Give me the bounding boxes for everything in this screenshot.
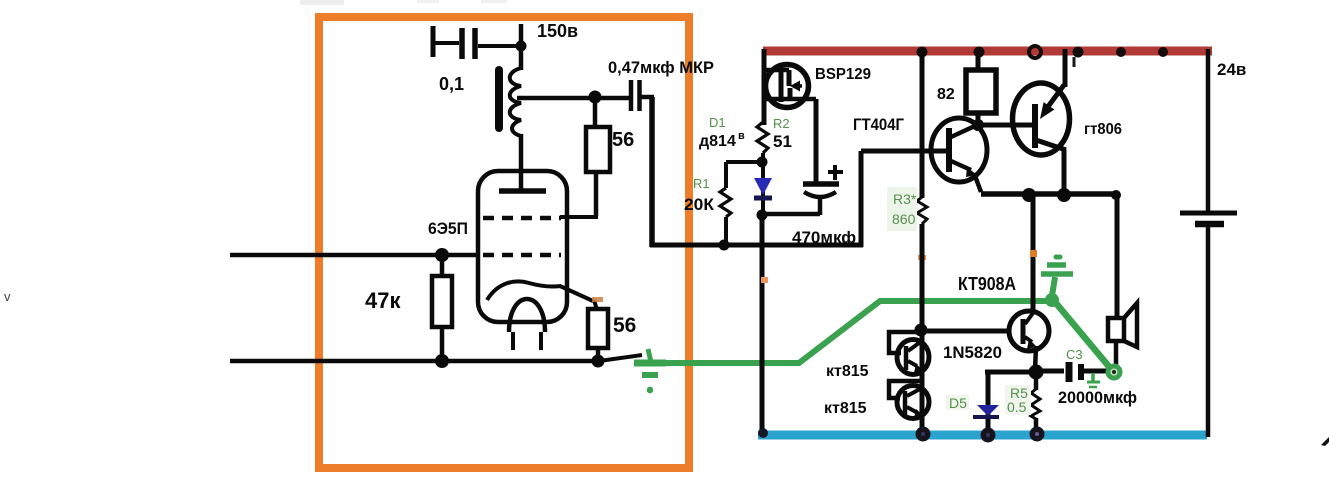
svg-text:R3*: R3* xyxy=(893,191,917,207)
resistor 82 xyxy=(966,51,996,126)
label 6E5P xyxy=(428,219,468,238)
value 0.5 xyxy=(1007,399,1027,415)
svg-text:1N5820: 1N5820 xyxy=(943,343,1002,362)
wire ground drop x762 xyxy=(760,215,765,433)
value 51 xyxy=(773,132,792,151)
capacitor 0,1 xyxy=(433,26,521,59)
ground earth green xyxy=(634,349,666,393)
value 20000uF xyxy=(1058,388,1137,407)
svg-text:20000мкф: 20000мкф xyxy=(1058,388,1137,407)
value 56 bottom xyxy=(613,314,636,337)
wire input bottom xyxy=(230,355,642,361)
artifact bottom right xyxy=(1321,437,1329,446)
tube anode plate xyxy=(499,188,546,194)
node blue rail left xyxy=(758,428,768,438)
svg-text:56: 56 xyxy=(612,129,634,151)
speaker LS1 xyxy=(1108,195,1137,367)
svg-text:D5: D5 xyxy=(949,395,967,411)
value 470uF xyxy=(792,228,856,247)
label BSP129 xyxy=(815,66,871,83)
value 47k xyxy=(365,288,401,313)
label gt806 xyxy=(1084,121,1122,138)
value 20K xyxy=(684,195,715,214)
rail 0V blue xyxy=(758,431,1207,440)
node blue rail kt815 xyxy=(916,427,931,442)
transistor Q1 BSP129 xyxy=(764,65,816,108)
label 150v xyxy=(537,21,578,41)
node collector junction xyxy=(972,119,984,131)
node tap junction xyxy=(589,91,602,104)
wire base gt806 xyxy=(978,123,1035,128)
label GT404G xyxy=(853,115,904,134)
svg-text:в: в xyxy=(738,130,745,142)
svg-text:D1: D1 xyxy=(709,115,726,130)
node blue rail r5 xyxy=(1030,427,1045,442)
wire source drop xyxy=(814,99,819,184)
resistor R5 0.5 xyxy=(1031,372,1040,432)
node input top junction xyxy=(435,248,449,262)
resistor R3 860 xyxy=(917,49,927,433)
node y192 left junction xyxy=(1022,188,1036,202)
artifact v gray xyxy=(4,289,11,304)
svg-text:0,1: 0,1 xyxy=(439,74,464,94)
node green junction xyxy=(1045,293,1059,307)
svg-text:20К: 20К xyxy=(684,195,715,214)
wire tap down xyxy=(593,98,598,127)
wire riser x861 xyxy=(859,151,864,247)
tube U1 6E5P envelope xyxy=(478,171,567,322)
svg-text:6Э5П: 6Э5П xyxy=(428,219,468,238)
capacitor C3 xyxy=(1034,362,1108,382)
faint scan artifact top xyxy=(300,0,507,5)
artifact orange smudge xyxy=(592,297,603,302)
svg-text:56: 56 xyxy=(613,314,636,337)
wire kt908 base xyxy=(921,329,1010,334)
svg-text:C3: C3 xyxy=(1066,347,1083,362)
wire screen grid xyxy=(560,172,598,217)
transistor Q4 KT908A xyxy=(1009,311,1049,371)
label 24v xyxy=(1217,60,1246,79)
tube heater xyxy=(509,299,545,350)
svg-text:КТ908А: КТ908А xyxy=(958,274,1016,294)
svg-text:BSP129: BSP129 xyxy=(815,66,871,83)
wire emitter bus y192 xyxy=(981,150,1118,194)
svg-text:470мкф: 470мкф xyxy=(792,228,856,247)
tube cathode xyxy=(487,281,561,300)
artifact orange mark x1033 xyxy=(1030,250,1037,257)
transistor Q2 GT404G xyxy=(931,118,987,192)
inductor L1 coil xyxy=(510,68,521,136)
label KT908A xyxy=(958,274,1016,294)
wire base feed y151 xyxy=(861,149,947,154)
node y245 junction xyxy=(719,240,730,251)
node y192 right junction xyxy=(1111,190,1121,200)
label R1 xyxy=(693,176,710,191)
label kt815 top xyxy=(826,363,869,380)
capacitor 0,47uF MKP xyxy=(631,80,654,111)
node green output ring xyxy=(1108,366,1120,378)
label 1N5820 xyxy=(943,343,1002,362)
resistor R1 xyxy=(720,162,763,245)
svg-text:24в: 24в xyxy=(1217,60,1246,79)
svg-text:R2: R2 xyxy=(773,116,790,131)
resistor 56 top xyxy=(586,127,610,172)
svg-text:д814: д814 xyxy=(699,133,736,150)
transistor Q6 kt815 bottom xyxy=(889,381,929,419)
wire kt908 collector xyxy=(1031,194,1036,313)
wire cathode lead xyxy=(560,286,597,310)
diode D1 zener d814 xyxy=(754,162,772,220)
node y192 mid junction xyxy=(1057,188,1071,202)
node 150v junction xyxy=(516,24,527,52)
transistor Q3 gt806 xyxy=(1013,83,1070,155)
value 0,47uF MKP xyxy=(608,58,714,77)
node R2 bottom junction xyxy=(757,157,768,168)
label kt815 bottom xyxy=(824,400,867,417)
label D1 xyxy=(709,115,726,130)
node base bus junction xyxy=(915,324,928,337)
wire coil to plate xyxy=(519,134,524,192)
ground mini green xyxy=(1087,373,1100,387)
transistor Q5 kt815 top xyxy=(889,332,929,375)
wire output bus y371 xyxy=(985,370,1036,375)
ground earth green right xyxy=(1041,257,1073,296)
wire coupling down xyxy=(649,97,655,247)
svg-text:860: 860 xyxy=(892,211,916,227)
value 56 top xyxy=(612,129,634,151)
value 0,1 xyxy=(439,74,464,94)
wire gt806 collector rail xyxy=(1065,49,1074,87)
resistor R2 xyxy=(757,122,768,163)
tube control grid dashed xyxy=(483,253,561,258)
label C3 xyxy=(1066,347,1083,362)
capacitor C 470uF xyxy=(762,165,843,215)
wire bus y245 xyxy=(650,243,863,248)
orange highlight box xyxy=(319,17,689,468)
diode D5 xyxy=(973,372,999,432)
svg-text:47к: 47к xyxy=(365,288,401,313)
label D5 xyxy=(946,395,969,411)
node blue rail d5 xyxy=(981,428,996,443)
svg-text:v: v xyxy=(4,289,11,304)
tube screen grid dashed xyxy=(483,216,561,221)
svg-text:R1: R1 xyxy=(693,176,710,191)
node input bottom junction xyxy=(435,354,449,368)
node emitter junction xyxy=(1029,365,1044,380)
svg-text:51: 51 xyxy=(773,132,792,151)
svg-text:0.5: 0.5 xyxy=(1007,399,1027,415)
node cap bottom junction xyxy=(757,210,768,221)
svg-text:гт806: гт806 xyxy=(1084,121,1122,138)
rail junction dots xyxy=(917,46,1169,58)
wire input top xyxy=(230,253,479,258)
wire green diagonal xyxy=(1055,302,1111,369)
value 860 xyxy=(892,211,916,227)
node cathode ground junction xyxy=(592,355,605,368)
wire coil tap xyxy=(517,96,632,101)
value 82 xyxy=(937,86,955,103)
svg-text:82: 82 xyxy=(937,86,955,103)
battery B1 24v xyxy=(1180,49,1237,437)
label R2 xyxy=(773,116,790,131)
choke core bar xyxy=(495,70,503,128)
svg-text:кт815: кт815 xyxy=(824,400,867,417)
artifact orange mark x762 xyxy=(761,255,926,283)
svg-text:150в: 150в xyxy=(537,21,578,41)
svg-text:0,47мкф МКР: 0,47мкф МКР xyxy=(608,58,714,77)
svg-text:кт815: кт815 xyxy=(826,363,869,380)
wire rail left drop xyxy=(762,49,767,125)
label R5 xyxy=(1005,385,1031,415)
resistor R 47k xyxy=(432,257,452,360)
svg-text:ГТ404Г: ГТ404Г xyxy=(853,115,904,134)
wire to choke xyxy=(519,46,524,70)
label R3* xyxy=(887,187,917,231)
rail +24V red xyxy=(763,47,1212,56)
resistor 56 bottom xyxy=(588,309,608,361)
value d814v xyxy=(699,130,745,150)
wire green ground bus xyxy=(655,301,1047,363)
